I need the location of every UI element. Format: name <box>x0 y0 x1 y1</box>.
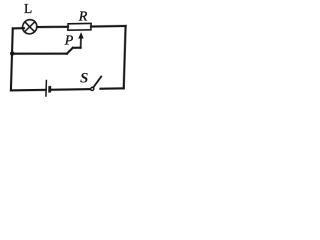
svg-text:R: R <box>78 10 88 25</box>
svg-text:L: L <box>24 1 32 16</box>
svg-text:S: S <box>80 70 88 86</box>
svg-text:P: P <box>64 34 74 49</box>
